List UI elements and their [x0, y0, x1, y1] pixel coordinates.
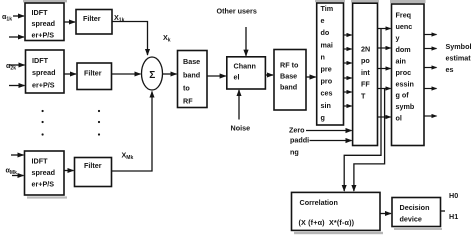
ghost band above time domain block — [315, 0, 345, 2]
svg-text:Base: Base — [183, 57, 200, 66]
label H1 — [449, 212, 458, 221]
svg-text:estimat: estimat — [446, 53, 472, 62]
wire arrow input2 row3 — [12, 175, 24, 177]
svg-text:er+P/S: er+P/S — [32, 180, 55, 189]
svg-text:pro: pro — [321, 77, 333, 86]
ellipsis dots column 2 — [98, 110, 100, 136]
ghost band below correlation — [294, 232, 383, 234]
svg-text:(X (f+α) X*(f-α)): (X (f+α) X*(f-α)) — [299, 218, 355, 227]
wire arrow input1 row3 — [11, 154, 24, 156]
svg-text:IDFT: IDFT — [32, 8, 49, 17]
label alpha1k — [2, 12, 12, 23]
svg-text:es: es — [446, 65, 454, 74]
label alpha2k — [6, 61, 16, 72]
wire arrow correlation to decision — [380, 213, 391, 215]
block IDFT spreader M — [25, 151, 65, 195]
wire arrow IDFT2 to Filter2 — [64, 73, 76, 75]
svg-text:Base: Base — [280, 72, 297, 81]
svg-text:dom: dom — [396, 45, 411, 54]
label X1k — [114, 13, 125, 24]
block 2N point FFT — [353, 3, 378, 145]
block Filter M — [75, 158, 112, 187]
svg-text:band: band — [280, 83, 297, 92]
svg-text:device: device — [400, 215, 422, 224]
block Time domain preprocessing — [317, 3, 344, 125]
wire arrow input2 row2 — [9, 85, 25, 87]
wire Filter1 to summer — [112, 22, 148, 56]
svg-text:H1: H1 — [449, 212, 458, 221]
svg-text:H0: H0 — [449, 191, 458, 200]
svg-text:er+P/S: er+P/S — [32, 31, 55, 40]
wire arrow input1 row2 — [9, 64, 25, 66]
label XMk — [122, 151, 134, 162]
svg-text:ol: ol — [396, 114, 402, 123]
svg-text:e: e — [321, 16, 325, 25]
wire tap2 fft output to correlation — [354, 89, 385, 192]
wire arrow input2 row1 — [9, 36, 24, 38]
svg-text:paddi: paddi — [290, 135, 309, 144]
wire arrow channel to rfbase — [265, 74, 273, 76]
svg-text:pre: pre — [321, 65, 332, 74]
label Other users — [217, 7, 257, 16]
wire tap1 fft output to correlation — [344, 29, 381, 192]
svg-text:Freq: Freq — [396, 11, 412, 20]
svg-text:spread: spread — [32, 168, 56, 177]
block Frequency domain processing of symbol — [392, 4, 425, 146]
svg-text:symb: symb — [396, 102, 415, 111]
block Base band to RF — [178, 51, 208, 108]
wire arrow input1 row1 — [13, 15, 24, 17]
wire arrow baseband to channel — [207, 75, 226, 77]
svg-text:mai: mai — [321, 40, 333, 49]
svg-text:spread: spread — [32, 68, 56, 77]
svg-text:band: band — [183, 71, 200, 80]
svg-text:Symbol: Symbol — [446, 42, 472, 51]
svg-text:Zero: Zero — [289, 125, 305, 134]
block Channel — [227, 57, 266, 89]
label Symbol estimates — [446, 42, 472, 74]
wire arrows freqdomain outputs — [424, 35, 437, 117]
svg-text:do: do — [321, 28, 330, 37]
wire arrow other users to channel — [245, 27, 247, 56]
ghost band above fft block — [351, 0, 379, 2]
svg-text:Filter: Filter — [83, 14, 101, 23]
svg-text:el: el — [234, 73, 240, 82]
svg-text:Chann: Chann — [234, 62, 256, 71]
wire arrow zero to fft — [306, 130, 352, 132]
svg-text:g of: g of — [396, 91, 410, 100]
label alphaMk — [6, 166, 18, 177]
svg-text:IDFT: IDFT — [32, 157, 49, 166]
wire arrows timedomain to fft — [344, 35, 352, 106]
svg-text:Decision: Decision — [400, 203, 430, 212]
svg-text:n: n — [321, 52, 325, 61]
wire Filter3 to summer — [112, 92, 153, 172]
summer sigma — [142, 57, 163, 90]
svg-text:2N: 2N — [361, 45, 370, 54]
svg-text:essin: essin — [396, 79, 414, 88]
label H0 — [449, 191, 458, 200]
wire arrow Filter2 to summer — [112, 73, 141, 75]
svg-text:Other users: Other users — [217, 7, 257, 16]
svg-text:ng: ng — [290, 147, 299, 156]
block Correlation — [292, 192, 381, 230]
svg-text:RF: RF — [183, 97, 193, 106]
svg-text:Tim: Tim — [321, 4, 334, 13]
svg-text:int: int — [361, 68, 370, 77]
svg-text:spread: spread — [32, 19, 56, 28]
svg-text:RF to: RF to — [280, 61, 299, 70]
svg-text:Σ: Σ — [149, 70, 155, 81]
svg-text:Correlation: Correlation — [300, 198, 338, 207]
wire arrow IDFT1 to Filter1 — [64, 21, 75, 23]
ghost band above IDFT1 — [23, 0, 67, 2]
svg-text:FF: FF — [361, 80, 370, 89]
ghost band below IDFT3 — [27, 196, 67, 198]
block Filter 2 — [77, 63, 112, 90]
label Zero padding — [289, 125, 309, 156]
svg-text:T: T — [361, 91, 366, 100]
svg-text:ain: ain — [396, 56, 406, 65]
svg-text:proc: proc — [396, 68, 412, 77]
svg-text:er+P/S: er+P/S — [32, 81, 55, 90]
block RF to Base band — [274, 50, 306, 111]
svg-text:IDFT: IDFT — [32, 56, 49, 65]
block IDFT spreader 2 — [26, 50, 65, 93]
block IDFT spreader 1 — [25, 3, 64, 41]
wire arrows fft to freqdomain — [378, 29, 391, 118]
label Xk — [163, 33, 171, 44]
svg-text:po: po — [361, 56, 370, 65]
svg-text:uenc: uenc — [396, 22, 413, 31]
svg-text:to: to — [183, 84, 190, 93]
block Decision device — [392, 198, 441, 227]
ghost band below decision — [394, 228, 442, 230]
svg-text:Filter: Filter — [84, 69, 102, 78]
wire arrow noise to channel — [238, 90, 240, 120]
block Filter 1 — [76, 10, 112, 35]
ghost band above freq domain block — [390, 0, 426, 3]
wire arrow rfbase to timedomain — [306, 76, 316, 78]
wire arrow padding to fft — [310, 140, 352, 142]
wire arrow summer to baseband — [163, 73, 177, 75]
label Noise — [231, 124, 251, 133]
svg-text:ces: ces — [321, 89, 333, 98]
wire decision output stub — [441, 210, 446, 212]
svg-text:y: y — [396, 34, 400, 43]
svg-text:Noise: Noise — [231, 124, 251, 133]
svg-text:sin: sin — [321, 101, 331, 110]
svg-text:Filter: Filter — [84, 161, 102, 170]
ellipsis dots column 1 — [42, 110, 44, 136]
wire arrow IDFT3 to Filter3 — [64, 170, 74, 172]
svg-text:g: g — [321, 113, 325, 122]
